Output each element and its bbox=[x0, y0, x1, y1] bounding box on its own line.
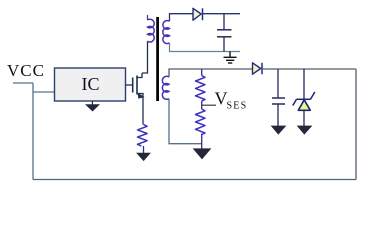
ground arrow under C2 bbox=[272, 126, 286, 134]
svg-text:SES: SES bbox=[227, 101, 248, 112]
svg-text:VCC: VCC bbox=[7, 61, 45, 80]
wire R3 to ground bbox=[201, 134, 203, 150]
wire Q1 drain arm bbox=[137, 73, 142, 78]
wire secondary2 bottom L bbox=[169, 99, 202, 144]
zener Z1 bbox=[293, 69, 315, 126]
IC U1 box bbox=[55, 68, 126, 101]
ground arrow under R3 bbox=[194, 149, 211, 159]
transformer T1 secondary winding 2 bbox=[162, 76, 169, 99]
Q1 source arrowhead bbox=[137, 92, 144, 98]
wire Q1 source arm bbox=[137, 94, 143, 125]
transformer T1 core bbox=[156, 17, 159, 101]
wire secondary1 top corner bbox=[170, 14, 193, 22]
wire secondary1 bottom to lower wire bbox=[170, 43, 241, 52]
resistor R2 upper divider bbox=[196, 76, 206, 102]
transistor Q1 MOSFET bbox=[133, 76, 137, 95]
wire Vses tap bbox=[202, 104, 216, 106]
resistor R3 lower divider bbox=[196, 109, 206, 135]
transformer T1 secondary winding 1 bbox=[163, 21, 170, 44]
diode D1 bbox=[193, 8, 203, 20]
wire IC to gate bbox=[126, 84, 133, 86]
wire bottom rail bbox=[33, 179, 356, 181]
wire left vertical rail bbox=[32, 83, 34, 180]
wire IC bottom stub bbox=[91, 101, 93, 105]
transformer T1 primary winding bbox=[148, 19, 155, 42]
svg-text:IC: IC bbox=[82, 74, 100, 94]
ground arrow under R1 bbox=[137, 153, 150, 160]
wire right vertical rail bbox=[355, 69, 357, 180]
wire R1 to ground bbox=[143, 146, 145, 154]
wire secondary2 top corner bbox=[169, 69, 252, 77]
wire R2 to R3 bbox=[201, 101, 203, 109]
ground earth symbol under C1 wire bbox=[224, 52, 237, 64]
wire primary top stub bbox=[147, 15, 149, 20]
wire IC left pin bbox=[33, 91, 55, 93]
capacitor C1 bbox=[217, 14, 232, 52]
wire primary bottom to drain bbox=[142, 41, 148, 73]
capacitor C2 output bbox=[272, 69, 285, 126]
ground arrow under Z1 bbox=[298, 126, 312, 134]
wire VCC stub bbox=[13, 82, 33, 84]
wire R2 top stub bbox=[201, 69, 203, 76]
wire D1 to right end bbox=[203, 13, 241, 15]
ground arrow under IC bbox=[86, 105, 99, 111]
wire D2 to right rail bbox=[262, 68, 356, 70]
resistor R1 source resistor bbox=[138, 125, 148, 147]
node Vses label bbox=[215, 89, 248, 112]
diode D2 bbox=[253, 63, 263, 74]
